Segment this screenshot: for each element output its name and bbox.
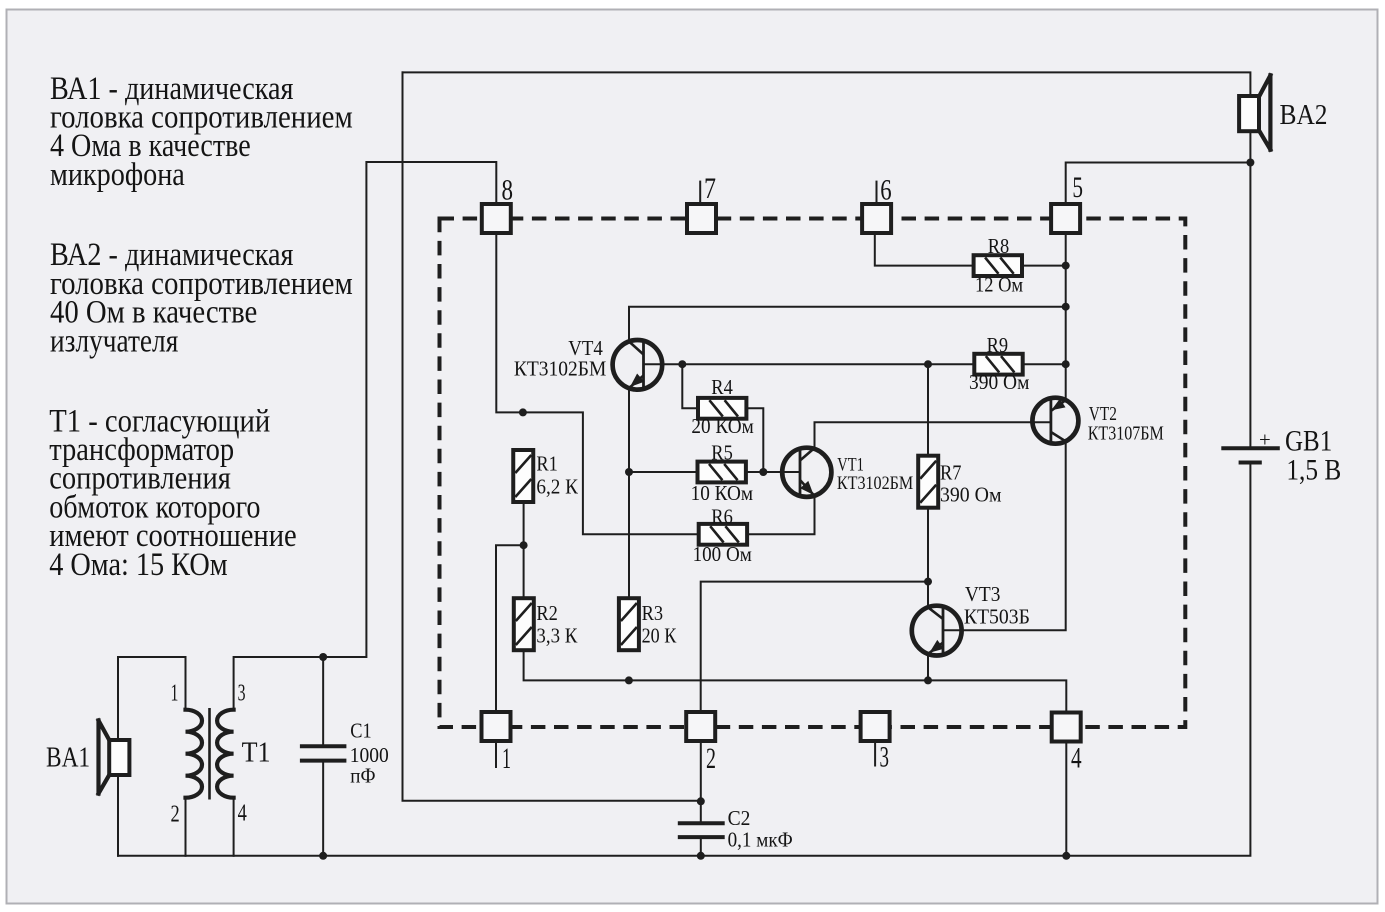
svg-text:R3: R3 xyxy=(642,602,664,625)
svg-text:3,3 К: 3,3 К xyxy=(536,624,577,647)
svg-text:8: 8 xyxy=(502,174,514,207)
capacitor C2 xyxy=(678,807,793,852)
node R9 right xyxy=(1062,360,1070,368)
wire BA2 bottom lead xyxy=(1249,131,1251,162)
wire R7 bottom lead to VT3 collector xyxy=(927,507,929,607)
svg-text:VT2: VT2 xyxy=(1089,404,1117,425)
resistor R9 xyxy=(969,334,1029,394)
svg-text:R1: R1 xyxy=(536,453,558,476)
pin 7 xyxy=(687,172,716,233)
svg-text:6,2 К: 6,2 К xyxy=(536,476,578,499)
wire R5 right lead to VT1 base xyxy=(746,471,799,473)
node R5 right / R4 branch xyxy=(759,468,767,476)
pin 6 xyxy=(862,174,892,234)
svg-text:1000: 1000 xyxy=(350,744,389,767)
resistor R3 xyxy=(619,598,677,650)
wire R9 right lead xyxy=(1023,363,1066,365)
pin 8 xyxy=(482,174,513,234)
IC dashed outline xyxy=(440,219,1186,728)
svg-text:0,1 мкФ: 0,1 мкФ xyxy=(728,829,793,852)
wire C2 bottom lead xyxy=(700,840,702,856)
wire VT3 emitter down xyxy=(927,654,929,681)
wire pin5 down to VT2 emitter xyxy=(1065,234,1067,401)
pin 5 xyxy=(1051,171,1083,233)
resistor R4 xyxy=(691,376,753,438)
node C1 top xyxy=(319,653,327,661)
transistor VT2 xyxy=(1032,398,1163,445)
svg-text:7: 7 xyxy=(704,172,716,205)
wire top rail from left riser to BA2 xyxy=(403,72,1251,96)
wire BA1 bottom lead xyxy=(117,775,119,856)
wire R8 right lead xyxy=(1022,265,1066,267)
svg-text:BA2: BA2 xyxy=(1280,99,1328,131)
svg-text:КТ503Б: КТ503Б xyxy=(964,606,1030,629)
resistor R1 xyxy=(513,450,578,502)
node R8 right xyxy=(1062,262,1070,270)
svg-text:390 Ом: 390 Ом xyxy=(969,371,1029,394)
wire battery plus up to BA2 node xyxy=(1249,163,1251,447)
node C2 top xyxy=(697,797,705,805)
wire C1 top lead xyxy=(322,657,324,744)
svg-text:12 Ом: 12 Ом xyxy=(975,274,1023,297)
svg-text:3: 3 xyxy=(238,681,246,707)
svg-text:20 К: 20 К xyxy=(642,624,677,647)
node R1 bottom / pin1 branch xyxy=(520,541,528,549)
node R4 left on VT4 base xyxy=(678,360,686,368)
pin 3 tick xyxy=(874,741,876,766)
svg-text:4: 4 xyxy=(1071,742,1082,775)
wire C1 bottom lead xyxy=(322,763,324,856)
wire VT4 base line to R9 left xyxy=(645,363,975,365)
svg-text:R2: R2 xyxy=(536,602,558,625)
svg-text:4: 4 xyxy=(238,800,247,826)
node BA2 bottom xyxy=(1246,159,1254,167)
wire pin2 to R7 bottom and VT3 xyxy=(701,582,928,712)
note about T1 xyxy=(49,403,297,583)
wire left riser down to C2 node xyxy=(403,72,701,800)
node R5 left on VT4 emitter xyxy=(625,468,633,476)
pin 7 tick xyxy=(699,182,701,204)
wire transformer secondary bottom lead xyxy=(233,798,235,856)
transformer T1 primary winding xyxy=(186,710,203,798)
svg-text:5: 5 xyxy=(1072,171,1083,204)
svg-text:R8: R8 xyxy=(988,235,1010,258)
pin 1 xyxy=(482,712,512,775)
wire R5 left lead xyxy=(629,471,697,473)
resistor R8 xyxy=(974,235,1024,297)
svg-text:Т1: Т1 xyxy=(242,738,271,769)
pin 1 tick xyxy=(495,742,497,768)
wire VT1 collector to VT2 base xyxy=(815,422,1050,448)
node C2 bottom xyxy=(697,852,705,860)
wire R6 right lead to VT1 emitter xyxy=(747,497,814,535)
svg-text:3: 3 xyxy=(880,741,890,774)
svg-text:2: 2 xyxy=(171,802,180,828)
svg-text:R6: R6 xyxy=(711,505,733,528)
node R7 bottom / pin2 wire xyxy=(924,578,932,586)
svg-text:R5: R5 xyxy=(711,442,733,465)
svg-text:КТ3107БМ: КТ3107БМ xyxy=(1088,424,1164,445)
capacitor C1 xyxy=(300,719,389,787)
svg-text:20 КОм: 20 КОм xyxy=(691,415,753,438)
note about BA1 xyxy=(50,71,353,193)
svg-text:6: 6 xyxy=(880,174,891,207)
transistor VT1 xyxy=(782,448,913,497)
wire R2 top lead xyxy=(523,545,525,599)
speaker BA2 xyxy=(1239,75,1327,149)
resistor R2 xyxy=(514,598,578,650)
pin 6 tick xyxy=(876,182,878,204)
wire R4 right to R5 right node xyxy=(746,408,763,472)
resistor R5 xyxy=(691,442,753,505)
battery GB1 xyxy=(1221,424,1341,486)
svg-text:С2: С2 xyxy=(728,807,751,830)
svg-text:КТ3102БМ: КТ3102БМ xyxy=(837,474,913,494)
wire VT4 emitter down to R3 top xyxy=(628,388,630,600)
transformer T1 secondary winding xyxy=(217,710,234,798)
svg-text:VT3: VT3 xyxy=(965,583,1001,606)
svg-text:1: 1 xyxy=(502,742,511,775)
speaker BA1 xyxy=(46,721,129,794)
wire R7 top lead xyxy=(927,364,929,456)
wire pin8 bottom to R1 top and R6 left xyxy=(496,234,698,535)
pin 2 xyxy=(686,712,716,775)
svg-text:КТ3102БМ: КТ3102БМ xyxy=(514,357,606,380)
pin 3 xyxy=(861,712,890,774)
svg-text:VT1: VT1 xyxy=(837,455,864,475)
svg-text:R7: R7 xyxy=(940,462,962,485)
node C1 bottom xyxy=(319,852,327,860)
svg-text:2: 2 xyxy=(706,742,716,775)
svg-text:1,5 В: 1,5 В xyxy=(1286,454,1341,487)
wire pin2 down to C2 xyxy=(700,742,702,821)
svg-text:С1: С1 xyxy=(350,719,371,742)
wire R2 bottom rail to pin4 xyxy=(524,649,1067,712)
node R3 bottom xyxy=(625,676,633,684)
node R1 top xyxy=(519,408,527,416)
svg-text:1: 1 xyxy=(171,681,179,707)
resistor R6 xyxy=(693,505,752,566)
svg-text:R9: R9 xyxy=(987,334,1009,357)
wire VT4 collector riser xyxy=(629,307,1066,342)
svg-text:+: + xyxy=(1259,429,1271,452)
wire BA1 top loop to transformer primary xyxy=(118,657,186,740)
svg-text:10 КОм: 10 КОм xyxy=(691,482,753,505)
svg-text:пФ: пФ xyxy=(350,765,375,788)
wire R4 left branch xyxy=(682,364,698,408)
wire R1 bottom node to pin1 xyxy=(496,502,524,712)
node R9 left / R7 top xyxy=(924,360,932,368)
resistor R7 xyxy=(918,456,1001,508)
node VT3 emitter xyxy=(924,676,932,684)
wire transformer primary bottom lead xyxy=(185,798,187,856)
wire pin8 to transformer secondary top xyxy=(234,162,497,710)
svg-text:R4: R4 xyxy=(711,376,733,399)
transistor VT4 xyxy=(514,337,662,390)
svg-text:390 Ом: 390 Ом xyxy=(940,484,1002,507)
svg-text:излучателя: излучателя xyxy=(50,323,178,359)
wire pin4 bottom xyxy=(1065,742,1067,856)
svg-text:микрофона: микрофона xyxy=(50,157,185,193)
transformer T1 core xyxy=(208,708,211,800)
wire pin5 top to BA2 bottom node xyxy=(1066,163,1251,205)
svg-text:100 Ом: 100 Ом xyxy=(693,543,752,566)
node VT4 collector rail xyxy=(1062,303,1070,311)
transistor VT3 xyxy=(912,583,1030,655)
pin 4 xyxy=(1052,713,1082,775)
wire bottom rail to battery minus xyxy=(118,465,1250,856)
svg-text:BA1: BA1 xyxy=(46,741,90,773)
wire R8 left lead to pin6 xyxy=(875,234,974,266)
svg-text:GB1: GB1 xyxy=(1285,424,1332,457)
node pin4 bottom xyxy=(1062,852,1070,860)
wire VT2 collector to VT3 base xyxy=(944,442,1065,631)
svg-text:4 Ома: 15 КОм: 4 Ома: 15 КОм xyxy=(49,547,227,583)
note about BA2 xyxy=(50,237,353,359)
transformer T1 labels xyxy=(171,681,271,828)
